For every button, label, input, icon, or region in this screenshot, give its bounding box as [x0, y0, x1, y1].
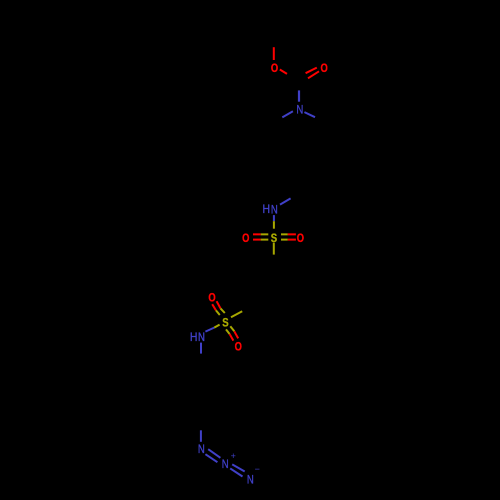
- svg-text:+: +: [231, 451, 236, 461]
- svg-text:O: O: [235, 341, 242, 354]
- svg-text:N: N: [247, 473, 254, 486]
- svg-text:N: N: [296, 104, 303, 117]
- svg-text:N: N: [198, 443, 205, 456]
- svg-text:O: O: [242, 232, 249, 245]
- svg-text:H: H: [190, 332, 198, 345]
- svg-text:N: N: [271, 204, 278, 217]
- svg-text:S: S: [222, 317, 228, 330]
- svg-text:H: H: [263, 203, 271, 216]
- svg-text:O: O: [320, 62, 327, 75]
- svg-text:N: N: [222, 458, 229, 471]
- svg-text:N: N: [198, 331, 205, 344]
- svg-text:O: O: [208, 292, 215, 305]
- svg-text:S: S: [271, 232, 277, 245]
- svg-text:O: O: [297, 232, 304, 245]
- svg-text:−: −: [255, 464, 260, 474]
- svg-text:O: O: [271, 62, 278, 75]
